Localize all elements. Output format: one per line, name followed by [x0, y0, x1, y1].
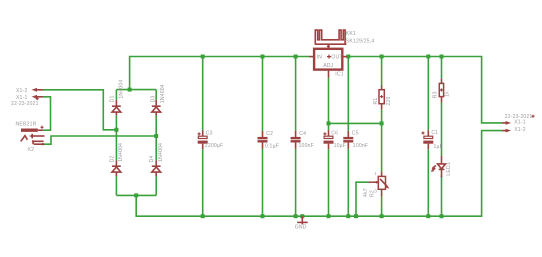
svg-text:4k7: 4k7 — [363, 188, 369, 197]
diode D1 1N4004 — [110, 80, 125, 116]
svg-text:R2: R2 — [370, 190, 376, 197]
svg-text:1N4004: 1N4004 — [118, 80, 124, 99]
svg-text:X1-2: X1-2 — [16, 88, 28, 94]
wire C6 column — [328, 123, 330, 216]
wire jack sleeve to bridge right node — [44, 136, 157, 144]
svg-text:SK129/25,4: SK129/25,4 — [346, 38, 375, 44]
junction ADJ node left — [327, 121, 331, 125]
wire IC1 ADJ to node — [329, 78, 382, 124]
resistor R3 1k — [432, 79, 450, 103]
junction bridge right node — [154, 134, 158, 138]
X1 right origin cross — [532, 115, 535, 118]
svg-text:¬: ¬ — [371, 179, 374, 184]
junction ground rail LED — [440, 214, 444, 218]
svg-text:0.1µF: 0.1µF — [265, 143, 279, 149]
wire R1 column — [381, 57, 383, 124]
connector X1 pin X1-2 right arrow — [502, 127, 526, 133]
wire bridge bottom — [116, 194, 156, 196]
svg-text:X2: X2 — [28, 147, 35, 153]
svg-text:X1-1: X1-1 — [514, 120, 526, 126]
junction ground rail GND — [300, 214, 304, 218]
wire D2 column — [115, 130, 117, 196]
junction ground rail C2 — [261, 214, 265, 218]
heatsink KK1 SK129 — [315, 30, 375, 49]
svg-text:NEB21R: NEB21R — [16, 121, 37, 127]
svg-text:D4: D4 — [149, 155, 155, 162]
wire top rail IN — [130, 57, 310, 90]
svg-text:1N4004: 1N4004 — [118, 143, 124, 162]
svg-text:C1: C1 — [431, 130, 438, 136]
capacitor C2 0.1uF — [258, 131, 280, 150]
junction top rail C2 — [261, 55, 265, 59]
svg-text:1N4004: 1N4004 — [158, 143, 164, 162]
junction top rail C3 — [201, 55, 205, 59]
svg-text:C6: C6 — [331, 131, 338, 137]
diode D2 1N4004 — [109, 143, 124, 176]
capacitor C3 2200uF — [198, 130, 224, 149]
junction ground rail R2 — [380, 214, 384, 218]
svg-text:ADJ: ADJ — [323, 63, 333, 69]
svg-text:1: 1 — [374, 171, 377, 176]
ground symbol GND — [295, 216, 308, 231]
diode D3 1N4004 — [151, 84, 167, 115]
svg-text:22-23-2021: 22-23-2021 — [11, 101, 39, 107]
svg-text:R3: R3 — [432, 91, 438, 98]
junction ground rail C5 — [346, 214, 350, 218]
junction ground rail wiper — [354, 214, 358, 218]
svg-text:GND: GND — [295, 225, 307, 231]
svg-text:100nF: 100nF — [299, 143, 314, 149]
potentiometer R2 4k7 — [363, 171, 390, 197]
X1 origin cross — [36, 97, 39, 100]
svg-text:IC1: IC1 — [335, 72, 344, 78]
wire R2 column — [381, 123, 383, 216]
svg-text:C2: C2 — [266, 131, 273, 137]
svg-text:22-23-2021: 22-23-2021 — [505, 114, 533, 120]
junction bridge bottom tap — [134, 193, 138, 197]
wire C5 column — [347, 57, 349, 217]
junction OUT C1 — [426, 55, 430, 59]
svg-text:2200µF: 2200µF — [205, 143, 224, 149]
wire R2 wiper to ground — [356, 182, 369, 216]
connector X1 pin X1-1 left arrow — [16, 95, 43, 101]
wire X1-2 to bridge left node — [43, 90, 116, 130]
svg-text:D3: D3 — [151, 95, 157, 102]
capacitor C4 100nF — [291, 131, 314, 149]
wire top rail OUT — [347, 57, 502, 123]
junction bridge top tap — [128, 88, 132, 92]
wire bottom tap to ground rail — [136, 131, 502, 217]
capacitor C1 1uF — [422, 130, 443, 150]
svg-text:1µF: 1µF — [434, 144, 443, 150]
connector X1 pin X1-2 left arrow — [16, 88, 43, 94]
wire C2 column — [262, 57, 264, 217]
svg-text:X1-2: X1-2 — [514, 127, 526, 133]
wire C4 column — [295, 57, 297, 217]
junction OUT R3 — [440, 55, 444, 59]
svg-text:IN: IN — [317, 55, 323, 61]
svg-text:10µF: 10µF — [334, 143, 347, 149]
svg-text:1k: 1k — [445, 91, 451, 97]
connector X1 pin X1-1 right arrow — [502, 120, 526, 126]
junction ground rail C4 — [294, 214, 298, 218]
junction ground rail C1 — [426, 214, 430, 218]
svg-text:R1: R1 — [373, 98, 379, 105]
connector X2 barrel jack NEB21R — [16, 121, 45, 153]
junction OUT C5 — [346, 55, 350, 59]
wire D1 column — [115, 90, 117, 130]
junction ground rail C3 — [201, 214, 205, 218]
junction top rail C4 — [294, 55, 298, 59]
svg-text:C4: C4 — [299, 131, 306, 137]
wire bridge top — [116, 89, 156, 91]
svg-text:C5: C5 — [352, 131, 359, 137]
svg-text:D2: D2 — [109, 155, 115, 162]
LED1 — [431, 156, 452, 178]
svg-text:D1: D1 — [110, 95, 116, 102]
diode D4 1N4004 — [149, 143, 164, 176]
capacitor C5 100nF — [343, 131, 368, 150]
wire D4 column — [155, 136, 157, 195]
wire D3 column — [155, 90, 157, 136]
svg-text:C3: C3 — [206, 130, 213, 136]
svg-text:1N4004: 1N4004 — [160, 84, 166, 103]
junction bridge left node — [114, 128, 118, 132]
svg-text:220: 220 — [386, 96, 392, 105]
svg-text:OUT: OUT — [331, 55, 342, 61]
wire C1 column — [427, 57, 429, 217]
voltage regulator IC1 — [309, 44, 347, 78]
resistor R1 220 — [373, 85, 392, 110]
capacitor C6 10uF — [323, 130, 346, 149]
svg-text:LED1: LED1 — [446, 162, 452, 176]
svg-text:100nF: 100nF — [353, 143, 368, 149]
wire X1-1 to jack tip — [43, 97, 51, 130]
wire C3 column — [202, 57, 204, 217]
junction ADJ node right — [380, 121, 384, 125]
wire R3 LED column — [441, 57, 443, 217]
junction OUT R1 — [380, 55, 384, 59]
svg-text:KK1: KK1 — [346, 31, 356, 37]
junction ground rail C6 — [327, 214, 331, 218]
